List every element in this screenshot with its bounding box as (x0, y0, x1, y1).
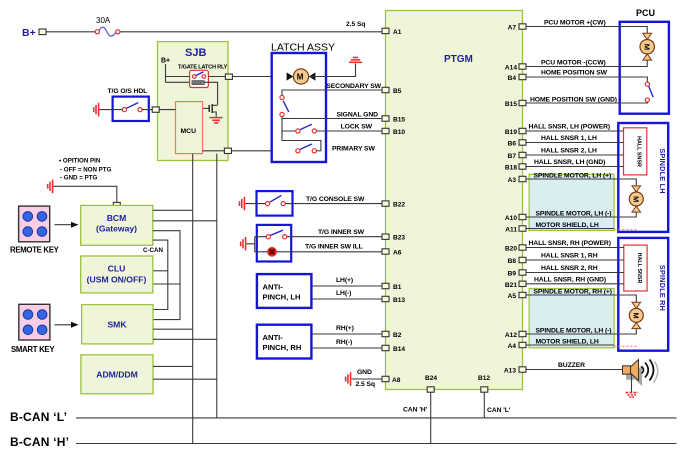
buzzer speaker (623, 360, 658, 387)
svg-text:PCU MOTOR -(CCW): PCU MOTOR -(CCW) (541, 60, 606, 67)
svg-text:T/GATE LATCH RLY: T/GATE LATCH RLY (178, 65, 228, 71)
svg-text:M: M (642, 44, 651, 50)
svg-text:A13: A13 (504, 368, 516, 375)
label 2.5 Sq wire gauge (346, 21, 365, 28)
pin A5 (508, 292, 526, 300)
svg-text:BUZZER: BUZZER (558, 362, 585, 369)
svg-text:HALL SNSR, RH (GND): HALL SNSR, RH (GND) (534, 277, 606, 284)
pin A12 (505, 331, 526, 339)
svg-text:B24: B24 (425, 375, 437, 382)
pin B24 (425, 375, 437, 392)
svg-text:(USM ON/OFF): (USM ON/OFF) (87, 275, 147, 285)
svg-text:M: M (297, 73, 304, 82)
pin A13 (504, 367, 526, 375)
wire LH(+) to B1 (311, 277, 382, 286)
arrow remote key to BCM (55, 222, 79, 228)
svg-text:B18: B18 (505, 165, 517, 172)
wire ADM to CAN L bus (153, 378, 217, 380)
pin B6 (508, 140, 526, 148)
IC MCU box (176, 102, 203, 154)
bus B-CAN L line (10, 410, 677, 424)
svg-text:LH(+): LH(+) (336, 277, 353, 284)
ground latch motor inverted (349, 58, 362, 63)
wire B7 hall 2 LH (526, 148, 624, 155)
svg-text:B19: B19 (505, 129, 517, 136)
wire CLU C-CAN stub 2 (153, 283, 180, 285)
switch lock latch (296, 124, 317, 133)
svg-text:B15: B15 (393, 117, 405, 124)
pin B7 (508, 152, 526, 160)
wire home position switch to B15 (526, 96, 647, 103)
wire B+ to fuse (46, 31, 95, 33)
wire B18 hall gnd LH (526, 159, 624, 166)
svg-text:B+: B+ (161, 58, 170, 65)
wire lamp to A6 (276, 251, 382, 253)
wire RH(+) to B2 (311, 325, 382, 334)
svg-text:A1: A1 (393, 29, 402, 36)
wire ADM to CAN H bus (153, 365, 193, 367)
switch T/G O/S HDL (108, 88, 149, 121)
svg-text:A10: A10 (505, 215, 517, 222)
note option pin (59, 158, 112, 182)
pin B23 (382, 234, 405, 242)
wire SMK to CAN H bus (153, 328, 193, 330)
svg-text:HALL SNSR, LH (GND): HALL SNSR, LH (GND) (534, 159, 605, 166)
svg-text:B22: B22 (393, 202, 405, 209)
module ADM DDM box (81, 355, 153, 394)
arrow smart key to SMK (55, 322, 79, 328)
svg-text:2.5 Sq: 2.5 Sq (346, 21, 365, 28)
svg-text:B6: B6 (508, 141, 517, 148)
pin B21 (505, 281, 526, 289)
svg-text:B-CAN ‘H’: B-CAN ‘H’ (10, 435, 69, 449)
pin A4 (508, 342, 526, 350)
connector battery B+ (39, 29, 46, 35)
svg-text:HALL SNSR 2, LH: HALL SNSR 2, LH (541, 148, 597, 155)
svg-text:B23: B23 (393, 235, 405, 242)
wire B6 hall 1 LH (526, 135, 624, 142)
switch T/G INNER SW (257, 225, 365, 262)
label SECONDARY SW (326, 83, 381, 90)
svg-text:B+: B+ (22, 27, 36, 39)
svg-text:PINCH, LH: PINCH, LH (263, 293, 301, 302)
pin B4 (508, 74, 526, 82)
motor M latch (287, 69, 316, 84)
label CAN H (403, 407, 428, 414)
wire BCM C-CAN line 1 (153, 231, 180, 320)
svg-text:HOME POSITION SW (GND): HOME POSITION SW (GND) (530, 96, 617, 103)
wire B4 to home position switch (526, 70, 647, 82)
svg-text:RH(+): RH(+) (336, 325, 354, 332)
svg-text:B14: B14 (393, 346, 405, 353)
svg-text:A6: A6 (393, 250, 402, 257)
wire RH(-) to B14 (311, 339, 382, 348)
pin B18 (505, 164, 526, 172)
wire A13 to buzzer (526, 362, 623, 370)
svg-text:30A: 30A (96, 16, 111, 25)
wire B24 to B-CAN H (430, 392, 432, 443)
wire connector to primary switch (231, 150, 296, 152)
wire CAN H bus vertical from MCU (192, 154, 194, 444)
ground icon option pin (48, 180, 53, 194)
svg-text:SJB: SJB (185, 47, 206, 59)
connector BCM option input (113, 202, 120, 207)
module PTGM box (386, 11, 523, 390)
svg-text:T/G CONSOLE SW: T/G CONSOLE SW (306, 196, 365, 203)
module PCU box (620, 8, 669, 114)
svg-text:- OFF = NON PTG: - OFF = NON PTG (60, 166, 112, 173)
module SPINDLE RH box (618, 238, 668, 351)
wire relay switch out to latch motor (208, 76, 225, 78)
wire spindle motor RH minus to A12 (526, 327, 636, 334)
ground icon A8 (346, 372, 351, 386)
wire connector to latch motor (232, 76, 287, 78)
svg-text:A11: A11 (505, 227, 517, 234)
svg-text:M: M (632, 196, 641, 202)
wire A3 spindle motor LH plus (526, 173, 636, 186)
svg-text:BCM: BCM (107, 213, 127, 223)
svg-text:B4: B4 (508, 75, 517, 82)
svg-text:A4: A4 (508, 343, 517, 350)
svg-text:B2: B2 (393, 332, 402, 339)
svg-text:SPINDLE MOTOR, LH (-): SPINDLE MOTOR, LH (-) (536, 327, 612, 334)
svg-text:ADM/DDM: ADM/DDM (96, 370, 138, 380)
svg-text:ANTI-: ANTI- (263, 333, 284, 342)
wire motor shield LH to A11 (526, 222, 614, 229)
label LOCK SW (341, 124, 373, 131)
svg-text:MCU: MCU (181, 128, 197, 135)
wire switch to SJB MCU (142, 109, 175, 111)
wire inner switch to B23 (287, 236, 382, 238)
svg-text:PINCH, RH: PINCH, RH (263, 343, 302, 352)
ground icon console switch (240, 197, 245, 211)
svg-text:LATCH ASSY: LATCH ASSY (271, 42, 335, 54)
pin A6 (382, 249, 402, 257)
svg-text:HALL SNSR: HALL SNSR (636, 136, 642, 167)
ground SJB transistor source (210, 118, 223, 123)
wire B20 hall power RH (526, 240, 624, 247)
motor M spindle LH (629, 186, 643, 212)
svg-text:M: M (632, 313, 641, 319)
svg-text:• OPITION PIN: • OPITION PIN (59, 158, 101, 165)
wire spindle motor LH minus to A10 (526, 210, 636, 217)
svg-text:HOME POSITION SW: HOME POSITION SW (541, 70, 608, 77)
wire shield drain dashed LH (614, 229, 637, 231)
wire B9 hall 2 RH (526, 265, 624, 272)
node B+ inside SJB (161, 58, 170, 65)
pin B5 (382, 87, 402, 95)
sensor HALL SNSR RH box (624, 245, 647, 291)
module LATCH ASSY box (271, 42, 335, 163)
svg-text:C-CAN: C-CAN (143, 247, 163, 254)
svg-text:LH(-): LH(-) (336, 290, 351, 297)
switch secondary latch (280, 95, 289, 116)
wire CLU C-CAN stub 1 (153, 270, 168, 272)
wire console switch to B22 (285, 203, 382, 205)
wire fuse to PTGM pin A1 (120, 31, 382, 33)
pin B12 (478, 375, 490, 392)
wire B8 hall 1 RH (526, 253, 624, 260)
svg-text:ANTI-: ANTI- (263, 283, 284, 292)
svg-text:SPINDLE MOTOR, LH (-): SPINDLE MOTOR, LH (-) (536, 210, 612, 217)
wire BCM C-CAN line 2 (153, 240, 168, 309)
wire latch motor to ground (309, 64, 356, 77)
svg-text:B7: B7 (508, 153, 517, 160)
svg-text:PCU: PCU (636, 8, 655, 18)
module BCM box (81, 205, 153, 245)
svg-text:A14: A14 (505, 65, 517, 72)
motor M PCU (640, 33, 654, 60)
pin B2 (382, 331, 402, 339)
svg-text:RH(-): RH(-) (336, 339, 352, 346)
pin B10 (382, 128, 405, 136)
svg-text:T/G O/S HDL: T/G O/S HDL (108, 88, 148, 95)
sensor HALL SNSR LH box (624, 128, 647, 175)
module SMK box (82, 305, 153, 344)
wire primary switch right stub (316, 150, 321, 152)
wire B21 hall gnd RH (526, 277, 624, 284)
remote key icon (10, 206, 60, 254)
pin B22 (382, 201, 405, 209)
switch primary latch (296, 144, 317, 153)
wire BCM to CAN L bus (153, 220, 217, 222)
module SJB box (158, 42, 229, 161)
wire shield drain dashed RH (614, 345, 637, 347)
svg-text:PTGM: PTGM (444, 54, 473, 65)
svg-text:A5: A5 (508, 293, 517, 300)
wire signal ground node (282, 117, 382, 151)
pin B15 left (382, 116, 405, 124)
pin A3 (508, 176, 526, 184)
pin B14 (382, 345, 405, 353)
wire motor shield RH to A4 (526, 339, 614, 346)
switch home position (645, 82, 653, 102)
pin B13 (382, 296, 405, 304)
ground buzzer (626, 393, 639, 398)
wire ground to A8 (351, 378, 382, 380)
bus B-CAN H line (10, 435, 677, 449)
svg-text:B12: B12 (478, 375, 490, 382)
wire option pin to BCM (54, 186, 117, 202)
wire B12 to B-CAN L (483, 392, 485, 418)
svg-text:HALL SNSR: HALL SNSR (636, 253, 642, 284)
svg-text:B9: B9 (508, 271, 517, 278)
pin A7 (508, 24, 526, 32)
motor M spindle RH (629, 302, 643, 328)
pin A1 (382, 28, 402, 36)
pin B20 (505, 245, 526, 253)
label C-CAN (143, 247, 163, 254)
wire MCU to primary switch (203, 150, 225, 152)
svg-text:T/G INNER SW ILL: T/G INNER SW ILL (305, 243, 363, 250)
svg-text:LOCK SW: LOCK SW (341, 124, 373, 131)
svg-text:B20: B20 (505, 246, 517, 253)
label PRIMARY SW (332, 145, 375, 152)
wire lock switch to B10 (316, 130, 382, 132)
connector SJB primary switch output (224, 148, 231, 153)
ground icon T/G O/S HDL (94, 103, 99, 117)
wire secondary switch to B5 (282, 90, 382, 95)
svg-text:- GND = PTG: - GND = PTG (60, 175, 97, 182)
pin B9 (508, 270, 526, 278)
node B+ battery feed label (22, 27, 36, 39)
pin A8 (382, 376, 401, 384)
wire A5 spindle motor RH plus (526, 289, 636, 303)
module CLU box (81, 256, 153, 293)
connector SJB relay output (225, 74, 232, 79)
pin A11 (505, 226, 526, 234)
svg-text:A3: A3 (508, 177, 517, 184)
svg-text:CLU: CLU (108, 264, 126, 274)
wire B+ feed to relay (166, 64, 192, 82)
wire BCM to CAN H bus (153, 209, 193, 211)
svg-text:HALL SNSR 2, RH: HALL SNSR 2, RH (541, 265, 598, 272)
svg-text:CAN 'L': CAN 'L' (487, 407, 511, 414)
wire LH(-) to B13 (311, 290, 382, 299)
svg-text:GND: GND (357, 369, 372, 376)
svg-text:A8: A8 (392, 377, 401, 384)
svg-text:SPINDLE LH: SPINDLE LH (658, 148, 667, 193)
pin A14 (505, 64, 526, 72)
svg-text:2.5 Sq: 2.5 Sq (356, 381, 375, 388)
svg-text:A12: A12 (505, 332, 517, 339)
svg-text:SIGNAL GND: SIGNAL GND (336, 111, 378, 118)
svg-text:SMART KEY: SMART KEY (11, 345, 55, 354)
transistor Q1 MOSFET (203, 104, 218, 117)
connector SJB left input (152, 107, 159, 112)
svg-text:(Gateway): (Gateway) (96, 224, 137, 234)
svg-text:B1: B1 (393, 284, 402, 291)
smart key icon (11, 304, 55, 354)
pin B19 (505, 128, 526, 136)
svg-text:B10: B10 (393, 129, 405, 136)
pin B15 right (505, 100, 526, 108)
svg-text:HALL SNSR 1, LH: HALL SNSR 1, LH (541, 135, 597, 142)
wire ground to console switch (245, 203, 265, 205)
label CAN L (487, 407, 511, 414)
svg-text:SMK: SMK (107, 320, 127, 330)
svg-text:SECONDARY SW: SECONDARY SW (326, 83, 381, 90)
fuse 30A (95, 16, 120, 36)
svg-text:A7: A7 (508, 25, 517, 32)
ground icon inner switch (241, 237, 246, 251)
svg-text:B15: B15 (505, 101, 517, 108)
relay T/GATE LATCH RLY (178, 65, 228, 88)
module SPINDLE LH box (618, 123, 668, 232)
pin B1 (382, 283, 402, 291)
pin A10 (505, 214, 526, 222)
svg-text:HALL SNSR 1, RH: HALL SNSR 1, RH (541, 253, 598, 260)
wire ground to switch (100, 109, 123, 111)
svg-text:HALL SNSR, LH (POWER): HALL SNSR, LH (POWER) (529, 124, 611, 131)
switch T/G CONSOLE SW (257, 191, 365, 216)
svg-text:PRIMARY SW: PRIMARY SW (332, 145, 375, 152)
pin B8 (508, 257, 526, 265)
svg-text:HALL SNSR, RH (POWER): HALL SNSR, RH (POWER) (529, 240, 611, 247)
wire A7 to PCU motor (526, 20, 647, 34)
module ANTI-PINCH LH box (257, 274, 312, 308)
svg-text:PCU MOTOR +(CW): PCU MOTOR +(CW) (544, 20, 606, 27)
svg-text:REMOTE KEY: REMOTE KEY (10, 246, 60, 255)
wire buzzer to ground (631, 374, 633, 392)
svg-text:B13: B13 (393, 297, 405, 304)
label SIGNAL GND (336, 111, 378, 118)
wire ground to inner switch node (247, 237, 268, 252)
wire relay coil to transistor drain (204, 82, 217, 105)
lamp inner switch illumination (268, 248, 276, 256)
svg-text:B8: B8 (508, 258, 517, 265)
svg-text:B-CAN ‘L’: B-CAN ‘L’ (10, 410, 67, 424)
svg-text:T/G INNER SW: T/G INNER SW (318, 229, 365, 236)
module ANTI-PINCH RH box (257, 325, 312, 359)
wire PCU motor to A14 (526, 60, 647, 67)
label GND 2.5 Sq (356, 369, 375, 388)
svg-text:B21: B21 (505, 282, 517, 289)
shield area RH (529, 289, 614, 348)
wire CAN L bus vertical from MCU (216, 154, 218, 418)
shield area LH (529, 174, 614, 230)
svg-text:SPINDLE RH: SPINDLE RH (658, 265, 667, 311)
wire SMK to CAN L bus (153, 338, 217, 340)
wire B19 hall power LH (526, 124, 624, 131)
svg-text:B5: B5 (393, 88, 402, 95)
svg-text:CAN 'H': CAN 'H' (403, 407, 428, 414)
